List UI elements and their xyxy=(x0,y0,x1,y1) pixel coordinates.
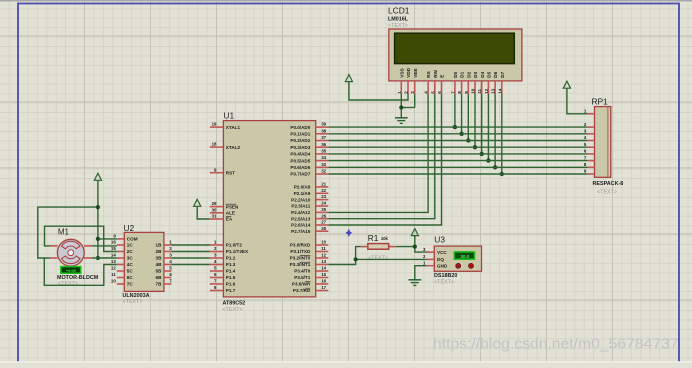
svg-text:P2.2/A10: P2.2/A10 xyxy=(291,197,311,202)
junction dot D2/P0.2 xyxy=(466,138,470,142)
svg-text:P1.6: P1.6 xyxy=(226,282,236,287)
svg-text:P0.7/AD7: P0.7/AD7 xyxy=(290,172,310,177)
wire LCD D6 down to P0 bus xyxy=(494,94,496,167)
U2 left pin stubs xyxy=(117,239,125,284)
svg-text:R1: R1 xyxy=(368,233,379,243)
svg-text:M1: M1 xyxy=(58,228,70,237)
wire M1 lower loop to U2 4C xyxy=(44,258,117,285)
svg-text:DQ: DQ xyxy=(437,257,444,262)
svg-text:30.0: 30.0 xyxy=(461,254,470,259)
svg-text:P3.4/T0: P3.4/T0 xyxy=(294,269,311,274)
svg-text:<TEXT>: <TEXT> xyxy=(597,190,617,196)
svg-text:P0.2/AD2: P0.2/AD2 xyxy=(290,138,310,143)
wire LCD D2 down to P0 bus xyxy=(467,94,469,141)
svg-text:13: 13 xyxy=(321,259,326,264)
svg-text:7B: 7B xyxy=(156,282,163,287)
svg-text:11: 11 xyxy=(111,272,116,277)
svg-text:MOTOR-BLDCM: MOTOR-BLDCM xyxy=(57,275,99,281)
wire power rail to M1 lower-left xyxy=(38,207,98,258)
svg-text:U1: U1 xyxy=(224,111,235,121)
wire DQ node to U1 P3.3 xyxy=(328,259,355,264)
svg-text:GND: GND xyxy=(437,263,448,268)
svg-text:DS18B20: DS18B20 xyxy=(434,273,457,279)
wire LCD D7 down to P0 bus xyxy=(501,94,503,174)
svg-text:31: 31 xyxy=(212,214,217,219)
resistor R1 10k xyxy=(361,233,397,262)
svg-text:<TEXT>: <TEXT> xyxy=(123,299,143,305)
U2 right pin numbers xyxy=(169,240,172,284)
svg-text:D2: D2 xyxy=(466,71,471,77)
wire DQ node to U3 DQ xyxy=(356,258,427,260)
svg-text:LCD1: LCD1 xyxy=(388,6,410,16)
junction dot DQ node xyxy=(354,257,358,261)
LCD1 pin numbers 1-14 xyxy=(397,88,503,94)
junction dot D6/P0.6 xyxy=(493,165,497,169)
U1 right pin names xyxy=(290,125,311,293)
U1 left pin names xyxy=(226,125,249,293)
svg-text:21: 21 xyxy=(321,182,326,187)
svg-text:18: 18 xyxy=(212,142,217,147)
svg-text:29: 29 xyxy=(212,201,217,206)
U3 pin numbers xyxy=(423,247,426,266)
svg-text:4B: 4B xyxy=(156,262,163,267)
wire LCD RW to U1 P2.5 xyxy=(328,94,435,219)
svg-text:EA: EA xyxy=(226,217,233,222)
svg-text:XTAL2: XTAL2 xyxy=(226,145,241,150)
U1 overlines INT0 INT1 WR RD xyxy=(300,256,310,289)
svg-text:RP1: RP1 xyxy=(592,97,609,107)
svg-text:<TEXT>: <TEXT> xyxy=(223,307,243,313)
wire power rail vertical xyxy=(97,180,99,258)
svg-text:P1.3: P1.3 xyxy=(226,262,236,267)
svg-text:P3.3/INT1: P3.3/INT1 xyxy=(290,262,311,267)
svg-text:32: 32 xyxy=(321,169,326,174)
wire P0.1 bus from U1 to RP1 xyxy=(328,133,587,135)
wire U2 1B to U1 P1.0 xyxy=(171,244,209,246)
svg-text:12: 12 xyxy=(484,88,489,94)
wire ground drop xyxy=(400,108,402,118)
svg-text:39: 39 xyxy=(321,122,326,127)
svg-text:D7: D7 xyxy=(500,71,505,77)
power arrow for LCD VDD xyxy=(345,75,352,82)
svg-text:P3.6/WR: P3.6/WR xyxy=(292,282,311,287)
svg-text:4C: 4C xyxy=(127,262,134,267)
resistor pack RP1 (RESPACK-8) xyxy=(592,97,624,196)
svg-text:P1.1/T2EX: P1.1/T2EX xyxy=(226,249,249,254)
svg-text:P2.6/A14: P2.6/A14 xyxy=(291,223,311,228)
wire LCD D1 down to P0 bus xyxy=(461,94,463,134)
svg-text:PSEN: PSEN xyxy=(226,204,239,209)
wire power to RP1 pin 1 xyxy=(567,88,588,114)
svg-text:P2.0/A8: P2.0/A8 xyxy=(294,185,311,190)
wire U3 GND to ground xyxy=(415,266,427,280)
svg-text:16: 16 xyxy=(111,240,116,245)
svg-text:VCC: VCC xyxy=(437,250,447,255)
junction dot D4/P0.4 xyxy=(480,152,484,156)
svg-text:1C: 1C xyxy=(127,243,134,248)
U2 left pin numbers xyxy=(111,234,116,284)
wire VCC node to U3 VCC pin xyxy=(415,247,427,253)
U3 temperature display xyxy=(454,252,474,259)
svg-text:D1: D1 xyxy=(460,71,465,77)
svg-text:7C: 7C xyxy=(127,282,134,287)
ground symbol below U3 xyxy=(414,278,416,280)
svg-text:RS: RS xyxy=(426,71,431,78)
wire P0.3 bus from U1 to RP1 xyxy=(328,146,587,148)
svg-text:10: 10 xyxy=(111,279,116,284)
junction dot power/3C row xyxy=(96,256,100,260)
junction dot D3/P0.3 xyxy=(473,145,477,149)
U1 left pin numbers xyxy=(212,122,217,290)
junction dot D5/P0.5 xyxy=(486,158,490,162)
junction dot D0/P0.0 xyxy=(453,125,457,129)
svg-text:XTAL1: XTAL1 xyxy=(226,125,241,130)
wire LCD D3 down to P0 bus xyxy=(474,94,476,147)
svg-text:P3.7/RD: P3.7/RD xyxy=(293,288,311,293)
svg-text:AT89C52: AT89C52 xyxy=(223,301,246,307)
svg-text:VSS: VSS xyxy=(399,68,404,77)
svg-text:P0.6/AD6: P0.6/AD6 xyxy=(290,165,310,170)
wire U2 3B to U1 P1.2 xyxy=(171,257,209,259)
svg-text:15: 15 xyxy=(111,246,116,251)
wire LCD VSS to ground rail xyxy=(400,94,402,108)
power arrow for U3 VCC xyxy=(411,229,418,236)
wire LCD D4 down to P0 bus xyxy=(481,94,483,154)
driver U2 (ULN2003A) body xyxy=(123,223,164,305)
svg-text:https://blog.csdn.net/m0_56784: https://blog.csdn.net/m0_56784737 xyxy=(433,335,679,352)
svg-text:D0: D0 xyxy=(453,71,458,77)
svg-text:D4: D4 xyxy=(480,71,485,77)
RP1 pin numbers 1-9 xyxy=(584,109,587,174)
svg-text:D6: D6 xyxy=(493,71,498,77)
svg-text:RESPACK-8: RESPACK-8 xyxy=(593,181,624,187)
wire LCD E to U1 P2.6 xyxy=(328,94,441,225)
svg-text:P2.3/A11: P2.3/A11 xyxy=(291,204,310,209)
wire P0.0 bus from U1 to RP1 xyxy=(328,126,587,128)
wire power to U1 EA pin31 xyxy=(197,207,210,220)
power arrow for RP1 pin1 xyxy=(563,81,570,88)
wire M1 upper-right to U2 1C xyxy=(92,245,117,247)
LCD1 pin name labels xyxy=(399,67,505,78)
svg-text:10: 10 xyxy=(471,88,476,94)
svg-text:26: 26 xyxy=(321,213,326,218)
svg-text:P2.4/A12: P2.4/A12 xyxy=(291,210,311,215)
svg-text:U3: U3 xyxy=(434,235,445,245)
U3 pin stubs xyxy=(427,252,435,266)
wire power arrow to VCC node xyxy=(414,236,416,247)
svg-text:19: 19 xyxy=(212,122,217,127)
svg-text:35: 35 xyxy=(321,149,326,154)
svg-text:24: 24 xyxy=(321,201,326,206)
svg-text:RW: RW xyxy=(433,69,438,77)
svg-text:P0.5/AD5: P0.5/AD5 xyxy=(290,158,310,163)
svg-text:<TEXT>: <TEXT> xyxy=(388,23,408,29)
svg-text:22: 22 xyxy=(321,188,326,193)
svg-text:D3: D3 xyxy=(473,71,478,77)
svg-text:38: 38 xyxy=(321,128,326,133)
M1 rpm display xyxy=(61,267,81,274)
svg-text:P1.0/T2: P1.0/T2 xyxy=(226,243,243,248)
temperature sensor U3 (DS18B20) body xyxy=(434,235,482,286)
junction dot power/M1 branch xyxy=(96,205,100,209)
svg-text:P2.5/A13: P2.5/A13 xyxy=(291,216,311,221)
svg-text:3C: 3C xyxy=(127,256,134,261)
svg-text:P1.2: P1.2 xyxy=(226,256,236,261)
junction dot D1/P0.1 xyxy=(459,132,463,136)
svg-text:12: 12 xyxy=(111,266,116,271)
wire U2 4B to U1 P1.3 xyxy=(171,264,209,266)
wire M1 upper-left to U2 2C xyxy=(45,226,117,251)
svg-text:33: 33 xyxy=(321,162,326,167)
svg-text:+0.00: +0.00 xyxy=(66,268,77,273)
U1 right pin numbers xyxy=(321,122,326,290)
wire P0.5 bus from U1 to RP1 xyxy=(328,160,587,162)
svg-text:P3.5/T1: P3.5/T1 xyxy=(294,275,311,280)
svg-text:3B: 3B xyxy=(156,256,163,261)
LCD display LCD1 (LM016L) xyxy=(388,6,522,81)
power arrow for motor rail xyxy=(94,173,101,180)
junction dot power/COM branch xyxy=(96,237,100,241)
svg-text:10: 10 xyxy=(321,240,326,245)
svg-text:VEE: VEE xyxy=(413,68,418,77)
junction dot VCC node xyxy=(413,245,417,249)
svg-text:P1.4: P1.4 xyxy=(226,269,236,274)
svg-text:P2.1/A9: P2.1/A9 xyxy=(294,191,311,196)
wire power rail to U2 COM xyxy=(98,238,117,240)
svg-text:15: 15 xyxy=(321,272,326,277)
wire LCD VDD to power xyxy=(349,82,408,100)
svg-text:17: 17 xyxy=(321,285,326,290)
U3 buttons xyxy=(456,264,474,269)
svg-text:11: 11 xyxy=(477,89,482,94)
svg-text:COM: COM xyxy=(127,237,138,242)
wire ground rail tie xyxy=(401,107,414,109)
svg-text:5C: 5C xyxy=(127,269,134,274)
svg-text:14: 14 xyxy=(111,253,116,258)
svg-text:2B: 2B xyxy=(156,249,163,254)
wire LCD RS to U1 P2.4 xyxy=(328,94,428,212)
wire LCD D5 down to P0 bus xyxy=(487,94,489,161)
ground symbol below LCD xyxy=(400,116,402,118)
svg-text:<TEXT>: <TEXT> xyxy=(368,256,388,262)
U2 right pin stubs xyxy=(164,245,172,284)
wire P0.7 bus from U1 to RP1 xyxy=(328,173,587,175)
U2 right pin names xyxy=(156,243,163,287)
svg-text:23: 23 xyxy=(321,194,326,199)
wire U2 2B to U1 P1.1 xyxy=(171,251,209,253)
RP1 pin stubs xyxy=(588,114,595,174)
svg-text:RST: RST xyxy=(226,170,235,175)
svg-text:6B: 6B xyxy=(156,275,163,280)
svg-text:P2.7/A15: P2.7/A15 xyxy=(291,229,311,234)
svg-text:36: 36 xyxy=(321,142,326,147)
M1 pin stubs xyxy=(50,246,92,258)
U2 left pin names xyxy=(127,237,138,287)
svg-text:<TEXT>: <TEXT> xyxy=(434,280,454,286)
svg-text:10k: 10k xyxy=(381,236,389,241)
svg-text:1B: 1B xyxy=(156,243,163,248)
svg-text:13: 13 xyxy=(491,88,496,94)
svg-text:37: 37 xyxy=(321,135,326,140)
svg-text:P0.1/AD1: P0.1/AD1 xyxy=(290,132,310,137)
svg-text:P0.3/AD3: P0.3/AD3 xyxy=(290,145,310,150)
U1 left pin stubs xyxy=(210,127,224,290)
svg-text:14: 14 xyxy=(497,88,502,94)
svg-text:30: 30 xyxy=(212,207,217,212)
blue origin marker xyxy=(345,229,352,237)
LCD1 pin stubs xyxy=(401,81,502,94)
svg-text:2C: 2C xyxy=(127,249,134,254)
microcontroller U1 (AT89C52) body xyxy=(223,111,316,313)
svg-text:28: 28 xyxy=(321,226,326,231)
svg-text:P0.0/AD0: P0.0/AD0 xyxy=(290,125,310,130)
svg-text:ULN2003A: ULN2003A xyxy=(123,293,150,299)
svg-text:P1.7: P1.7 xyxy=(226,288,236,293)
svg-text:P0.4/AD4: P0.4/AD4 xyxy=(290,152,310,157)
wire P0.4 bus from U1 to RP1 xyxy=(328,153,587,155)
svg-text:P1.5: P1.5 xyxy=(226,275,236,280)
svg-text:VDD: VDD xyxy=(406,67,411,78)
svg-text:12: 12 xyxy=(321,253,326,258)
svg-text:6C: 6C xyxy=(127,275,134,280)
svg-text:5B: 5B xyxy=(156,269,163,274)
wire LCD VEE to ground rail xyxy=(414,94,416,108)
svg-text:16: 16 xyxy=(321,279,326,284)
bottom window strip xyxy=(0,361,692,363)
wire LCD D0 down to P0 bus xyxy=(454,94,456,127)
U1 overlines PSEN EA xyxy=(226,204,236,216)
wire P0.6 bus from U1 to RP1 xyxy=(328,166,587,168)
svg-text:U2: U2 xyxy=(124,223,135,233)
svg-text:D5: D5 xyxy=(487,71,492,77)
svg-text:25: 25 xyxy=(321,207,326,212)
M1 value label MOTOR-BLDCM xyxy=(57,275,99,287)
svg-text:14: 14 xyxy=(321,266,326,271)
wire R1 right to VCC node xyxy=(396,246,415,248)
svg-text:P3.2/INT0: P3.2/INT0 xyxy=(290,256,311,261)
junction dot D7/P0.7 xyxy=(500,172,504,176)
junction dot LCD ground rail xyxy=(399,105,403,109)
svg-text:E: E xyxy=(440,75,445,78)
svg-text:LM016L: LM016L xyxy=(388,16,409,22)
wire P0.2 bus from U1 to RP1 xyxy=(328,140,587,142)
U3 pin names xyxy=(437,250,448,269)
power arrow for U1 EA xyxy=(194,199,201,206)
svg-text:ALE: ALE xyxy=(226,211,235,216)
U1 right pin stubs xyxy=(316,127,329,290)
svg-text:P3.0/RXD: P3.0/RXD xyxy=(290,243,311,248)
svg-text:34: 34 xyxy=(321,155,326,160)
motor M1 (MOTOR-BLDCM) xyxy=(57,228,84,266)
wire M1 lower-right to U2 3C xyxy=(92,257,117,259)
svg-text:13: 13 xyxy=(111,259,116,264)
svg-text:11: 11 xyxy=(321,246,326,251)
wire R1 left to DQ node xyxy=(356,247,361,260)
svg-text:27: 27 xyxy=(321,220,326,225)
svg-text:P3.1/TXD: P3.1/TXD xyxy=(290,249,311,254)
window top edge xyxy=(0,0,692,2)
